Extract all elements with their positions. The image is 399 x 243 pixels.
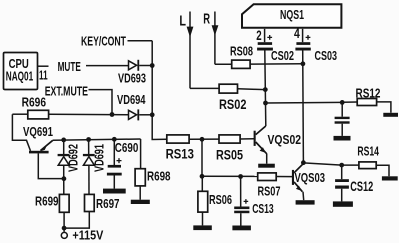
ground cap RS12 [334,136,351,141]
node VD691-rail [86,137,91,142]
wire RS05 to VQS02 base [240,138,254,140]
wire R696 to VD694 [49,113,129,115]
wire RS08 to node [250,63,303,65]
svg-text:CS13: CS13 [252,201,274,216]
svg-text:EXT.MUTE: EXT.MUTE [45,83,89,98]
node collector-VD692 [62,176,67,181]
svg-text:KEY/CONT: KEY/CONT [81,34,126,48]
node RS08-CS03 [301,61,306,66]
ground RS06 [193,225,212,230]
wire CS02 column [265,50,266,126]
wire node down [201,139,203,176]
wire L row [190,87,219,89]
ground CS12 [333,201,353,206]
svg-text:CS02: CS02 [271,49,294,63]
node EXT.MUTE junction [110,112,115,117]
svg-text:CS12: CS12 [350,179,373,194]
svg-text:C690: C690 [115,140,139,155]
svg-text:RS13: RS13 [166,147,195,162]
wire MUTE row [86,65,129,67]
svg-text:RS07: RS07 [258,184,281,198]
svg-text:NQS1: NQS1 [280,7,304,22]
svg-text:VQS02: VQS02 [268,132,302,147]
capacitor CS02 [257,35,294,63]
pin 2 [256,28,264,43]
wire RS07 to VQS03 base [276,176,292,178]
svg-text:VD693: VD693 [118,71,146,85]
resistor RS08 [230,44,253,68]
capacitor under RS12 [335,102,350,135]
svg-text:NAQ01: NAQ01 [6,69,33,84]
ground RS12 [383,113,398,117]
wire CS03 column [302,51,305,163]
wire RS13 to RS05 [189,138,219,140]
node RS14 [339,163,344,168]
terminal +115V [61,229,104,243]
wire R699 to +115V [63,212,65,232]
node VD692-rail [61,138,66,143]
resistor RS02 [219,84,247,112]
resistor RS05 [216,135,243,163]
svg-text:R: R [203,11,210,28]
resistor RS14 [342,145,389,177]
CPU NAQ01 box [4,53,38,90]
svg-text:VD694: VD694 [117,93,146,107]
svg-text:RS02: RS02 [219,97,247,112]
wire VD694 to bus [139,114,152,116]
ground CS13 [232,226,251,231]
resistor R697 [85,194,120,211]
ground VQS02 [258,164,275,168]
wire R row [215,63,232,65]
wire EXT.MUTE [89,90,113,115]
node VD694-bus [150,112,155,117]
svg-text:L: L [179,12,186,29]
node RS07 row left [200,174,205,179]
svg-text:VD692: VD692 [67,144,81,172]
node RS12 [340,100,345,105]
wire audio rail [53,139,141,140]
svg-text:R696: R696 [22,95,46,110]
svg-text:VQ691: VQ691 [23,124,53,139]
node CS13 [238,174,243,179]
ground R698 [131,200,150,204]
wire R696 down to VQ691 base [12,114,30,151]
resistor R696 [28,110,49,119]
ground C690 [103,189,126,194]
capacitor CS13 [234,177,274,226]
transistor VQ691 [23,124,64,178]
wire VD693 to bus [139,65,152,67]
svg-text:RS08: RS08 [230,44,253,58]
input L [179,12,193,89]
svg-text:CS03: CS03 [315,48,338,63]
capacitor CS03 [295,35,337,63]
node +115V [62,226,67,231]
svg-text:MUTE: MUTE [58,59,81,74]
wire to R696 [12,113,27,115]
svg-text:2: 2 [256,28,261,43]
svg-text:4: 4 [294,26,300,41]
wire KEY/CONT [128,40,153,42]
wire RS07 row [202,175,258,177]
svg-text:R699: R699 [35,194,59,209]
svg-text:R698: R698 [147,168,171,183]
capacitor CS12 [335,165,373,201]
resistor R699 [35,194,69,213]
NQS1 module [242,4,341,28]
ground VQS03 [296,200,315,204]
svg-text:R697: R697 [96,196,120,211]
pin 4 [294,26,303,42]
wire mute bus vertical [152,41,167,140]
svg-text:VQS03: VQS03 [295,170,326,185]
wire collector to RS14 [303,163,341,165]
wire right bus row [266,101,343,104]
svg-text:RS06: RS06 [209,192,232,207]
svg-text:RS14: RS14 [357,145,379,159]
diode VD694 [117,93,146,120]
svg-text:11: 11 [39,68,48,83]
node VQS03 collector [301,160,306,165]
ground RS14 [382,176,398,180]
resistor RS07 [258,173,281,199]
pin 11 [38,66,49,82]
resistor RS12 [342,87,391,113]
resistor RS13 [166,135,195,162]
node C690-rail [112,137,117,142]
svg-text:+115V: +115V [72,229,104,243]
diode VD692 [58,140,81,195]
transistor VQS03 [292,163,325,200]
input R [203,11,218,65]
transistor VQS02 [254,126,301,164]
node right bus [263,101,268,106]
svg-text:RS05: RS05 [216,148,243,163]
wire R697 to +115V [64,212,89,229]
svg-text:RS12: RS12 [356,87,381,101]
resistor RS06 [198,176,232,225]
capacitor C690 [107,139,138,188]
node RS13-RS05 [200,137,205,142]
node RS02-CS02 [263,87,268,92]
diode VD693 [118,60,146,86]
svg-text:VD691: VD691 [93,144,107,172]
node VD693-bus [150,63,155,68]
resistor R698 [135,139,170,200]
diode VD691 [83,140,107,195]
wire RS02 to node [238,88,266,91]
